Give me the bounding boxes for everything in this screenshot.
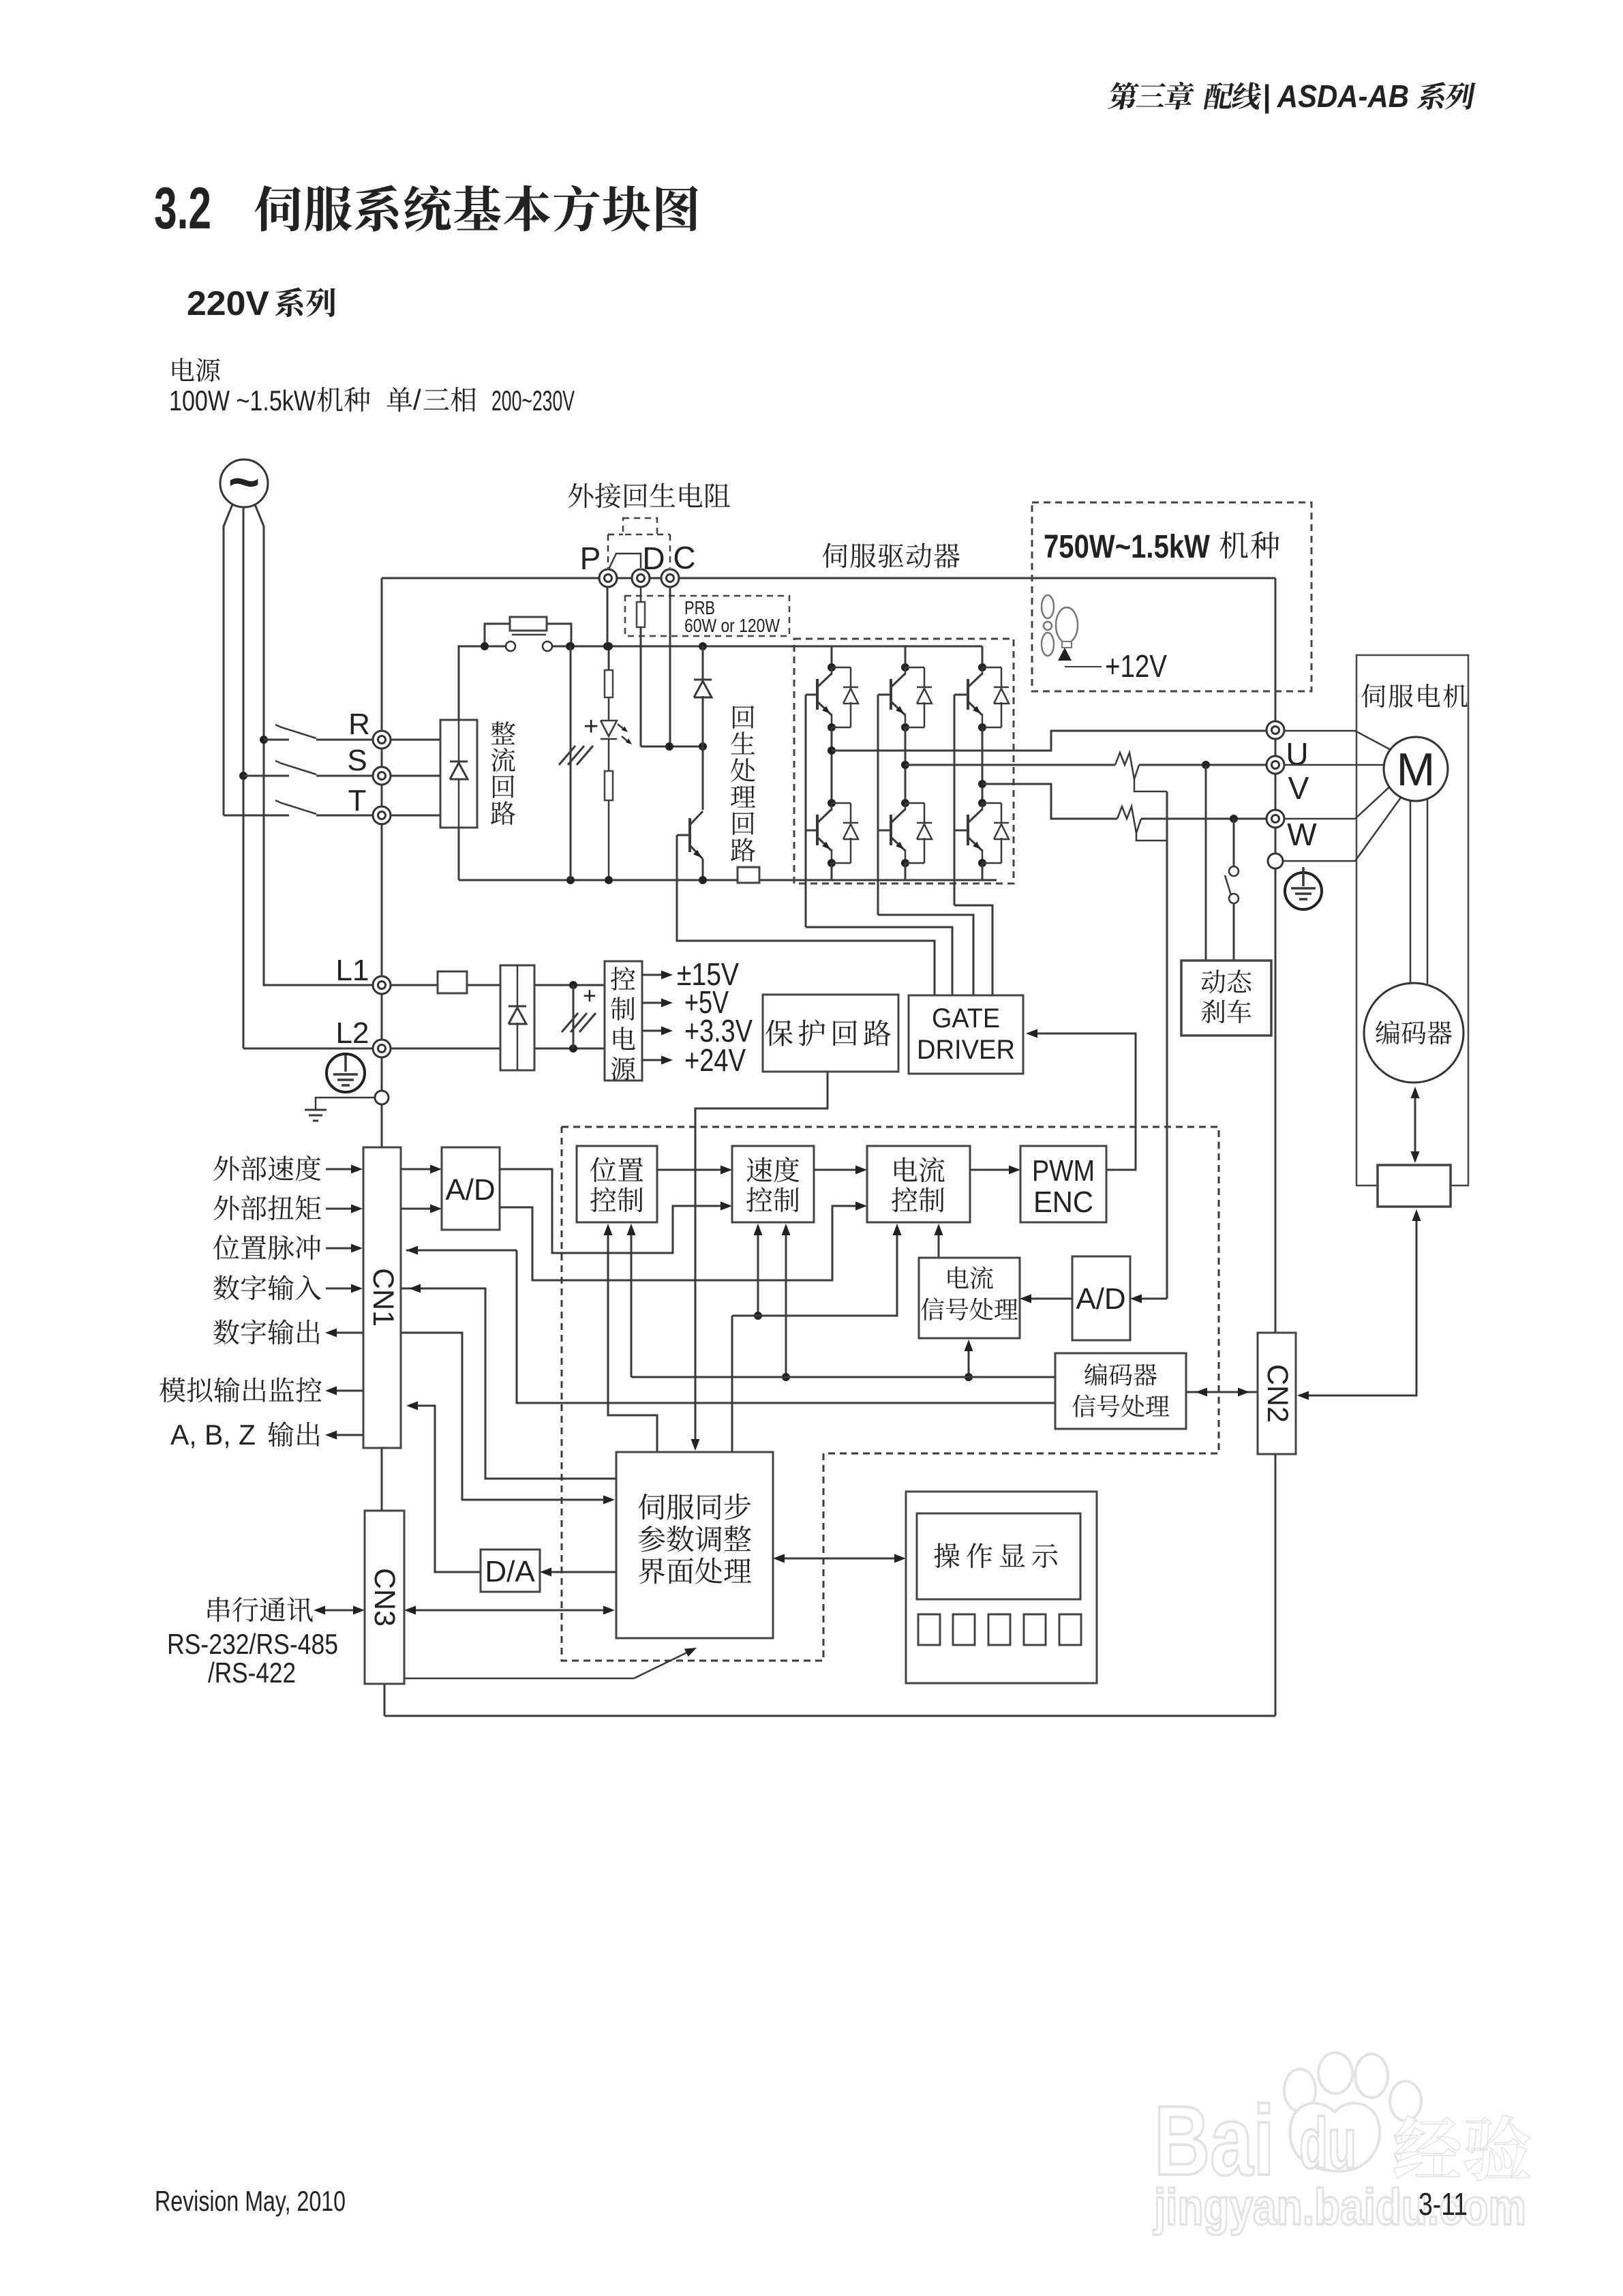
label 外部速度 (214, 1156, 239, 1181)
wire CN1 to A/D speed (401, 1168, 432, 1170)
svg-text:M: M (1397, 744, 1436, 796)
svg-text:L1: L1 (336, 954, 369, 987)
svg-text:+: + (583, 712, 598, 741)
terminal R (373, 731, 391, 749)
IGBT W lower freewheel diode (982, 802, 1001, 804)
wire V gate to gate driver (878, 915, 973, 995)
wire D C join to regen (641, 746, 703, 748)
control supply capacitor (573, 985, 575, 1048)
external regen resistor dashed box (623, 518, 657, 534)
wire L2 to control rectifier (391, 1048, 500, 1050)
wire feedback bus to encoder processing (631, 1376, 1055, 1378)
wire regen gate to gate driver (677, 835, 935, 995)
wire encoder feedback riser to position control (631, 1232, 633, 1377)
operator display screen 操作显示 (917, 1513, 1080, 1599)
wire brake tap V (1205, 765, 1207, 961)
switch R phase (260, 736, 268, 744)
IGBT W lower transistor (978, 799, 986, 807)
CN1 connector box (363, 1147, 401, 1448)
svg-text:60W or 120W: 60W or 120W (684, 615, 780, 636)
ground circle at L2 (327, 1054, 365, 1092)
wire S to rectifier (391, 775, 440, 777)
svg-text:/RS-422: /RS-422 (208, 1657, 296, 1689)
D/A box (481, 1550, 540, 1592)
LED indicator (608, 697, 610, 721)
bleeder resistor upper (605, 642, 613, 650)
wire C column down (669, 587, 671, 746)
svg-text:D: D (642, 541, 665, 576)
label 数字输出 (213, 1320, 239, 1345)
IGBT V lower freewheel diode (905, 802, 924, 804)
shunt resistor box on negative rail (738, 867, 759, 883)
wire U phase to terminal (832, 731, 1266, 751)
wire current control to PWM (970, 1169, 1012, 1171)
fan icon (1042, 595, 1054, 618)
protection box 保护回路 (763, 995, 898, 1072)
DC bus negative rail (459, 879, 738, 881)
svg-text:| ASDA-AB: | ASDA-AB (1262, 78, 1409, 114)
DC bus positive rail (552, 646, 982, 648)
label 外部扭矩 (214, 1196, 239, 1221)
label 模拟输出监控 (160, 1378, 185, 1403)
wire current sense to A/D (1166, 791, 1168, 1299)
terminal motor ground (1268, 854, 1283, 868)
wire AC source to S switch and L2 (243, 507, 245, 1048)
terminal D (632, 569, 650, 587)
PRB dashed box (625, 596, 789, 636)
wire pulse bus CN1 to encoder processing (406, 1250, 517, 1252)
terminal L2 (373, 1040, 391, 1057)
svg-text:A/D: A/D (1076, 1282, 1125, 1316)
DC bus capacitor (566, 642, 575, 650)
svg-text:S: S (347, 744, 367, 777)
750W~1.5kW dashed box (1032, 502, 1311, 691)
wire V phase node (905, 727, 907, 803)
wire V leg to negative rail (905, 863, 907, 880)
svg-text:U: U (1286, 736, 1308, 772)
rectifier box 整流回路 (440, 720, 477, 828)
wire encoder processing to CN2 double arrow (1186, 1391, 1258, 1393)
power outputs (642, 974, 663, 976)
svg-text:CN1: CN1 (367, 1268, 399, 1327)
position control box 位置控制 (577, 1146, 657, 1222)
encoder circle 编码器 (1364, 983, 1463, 1083)
wire control rectifier outputs (534, 984, 605, 986)
gate driver box (909, 995, 1023, 1074)
terminal U (1266, 721, 1284, 739)
speed control box 速度控制 (732, 1146, 814, 1222)
wire CN3 to interface double arrow (412, 1610, 607, 1612)
wire encoder to CN2 (1305, 1218, 1416, 1395)
operator display outer box (906, 1492, 1097, 1683)
PE ground symbol at motor (1285, 873, 1322, 909)
servo motor box 伺服电机 (1356, 655, 1468, 1185)
svg-text:~: ~ (228, 451, 260, 512)
servo drive boundary rail top (382, 577, 1275, 579)
wire W gate column (954, 695, 956, 905)
IGBT bridge dashed box (794, 639, 1014, 883)
current signal processing box 电流信号处理 (919, 1258, 1020, 1338)
svg-text:R: R (348, 708, 370, 741)
wire speed feedback risers (757, 1232, 759, 1316)
svg-text:Revision May, 2010: Revision May, 2010 (155, 2185, 346, 2217)
operator display buttons (918, 1614, 940, 1645)
IGBT V upper freewheel diode (905, 667, 924, 669)
label 外接回生电阻 (568, 483, 594, 509)
control power box 控制电源 (605, 961, 642, 1081)
svg-text:+: + (583, 983, 596, 1009)
label 数字输入 (213, 1275, 239, 1301)
wire U phase node (831, 727, 833, 803)
label 串行通讯 (208, 1597, 230, 1622)
svg-text:750W~1.5kW: 750W~1.5kW (1044, 529, 1211, 565)
terminal P (599, 569, 617, 587)
wire AC source to R switch and L1 (255, 504, 373, 985)
wire ground terminal to earth (316, 1098, 375, 1110)
svg-text:CN2: CN2 (1261, 1364, 1294, 1423)
wire V gate column (877, 695, 879, 915)
wire speed to current control (814, 1169, 858, 1171)
page header 第三章 配线 | ASDA-AB 系列 (1108, 82, 1140, 110)
wire CN3 serial diagonal to interface (404, 1678, 634, 1680)
wire W phase to terminal with current sensor (982, 784, 1117, 819)
IGBT V upper transistor (905, 646, 907, 667)
wire W current sense tap (1136, 833, 1167, 841)
serial double arrow to CN3 (322, 1610, 357, 1612)
svg-text:C: C (673, 540, 695, 575)
wire interface to position control riser (608, 1232, 657, 1452)
wire AC source to T switch (224, 504, 232, 815)
regen diode (699, 642, 707, 650)
baidu watermark (1154, 2053, 1421, 2196)
PRB resistor (637, 602, 645, 627)
IGBT U upper freewheel diode (832, 667, 851, 669)
servo drive boundary rail right (1275, 578, 1277, 1333)
A/D box (442, 1147, 500, 1230)
IGBT U lower transistor (828, 799, 836, 807)
CN2 connector box (1258, 1333, 1296, 1454)
wire protection to DSP (695, 1072, 828, 1443)
motor shaft to encoder (1410, 800, 1412, 984)
IGBT W upper transistor (982, 646, 984, 667)
svg-text:ENC: ENC (1033, 1185, 1093, 1219)
svg-text:3.2: 3.2 (154, 176, 211, 241)
label 伺服驱动器 (822, 543, 847, 568)
interface box 伺服同步参数调整界面处理 (616, 1452, 773, 1638)
wire L1 to fuse (391, 984, 438, 986)
soft start bypass resistor (485, 624, 510, 646)
wire fan +12V (1065, 666, 1102, 667)
IGBT U upper transistor (831, 646, 833, 667)
terminal V (1266, 756, 1284, 774)
svg-text:3-11: 3-11 (1419, 2186, 1468, 2222)
wire V current sense tap (1134, 779, 1167, 791)
switch S phase (239, 772, 247, 780)
wire DSP riser to interface box (731, 1316, 733, 1452)
wire fuse to control rectifier (467, 984, 500, 986)
PWM ENC box (1020, 1146, 1106, 1222)
rectifier diode (458, 720, 460, 761)
encoder signal processing box 编码器信号处理 (1055, 1353, 1186, 1429)
label 位置脉冲 (213, 1235, 239, 1260)
wire digital output to interface (401, 1333, 607, 1500)
jumper P to D (607, 554, 641, 573)
wire A/D2 to current signal processing (1029, 1298, 1072, 1300)
wire U leg to negative rail (831, 863, 833, 880)
svg-text:100W ~1.5kW: 100W ~1.5kW (169, 384, 316, 417)
svg-text:CN3: CN3 (368, 1568, 401, 1627)
terminal ground small circle (375, 1091, 389, 1104)
wire A/D to speed control (500, 1169, 723, 1253)
svg-text:PWM: PWM (1032, 1154, 1095, 1188)
wire CN1 to A/D torque (401, 1208, 432, 1210)
dynamic brake box 动态刹车 (1181, 961, 1271, 1036)
svg-text:+24V: +24V (684, 1042, 746, 1078)
label 回生处理回路 (733, 706, 754, 729)
wire interface to operator display double arrow (781, 1558, 898, 1560)
svg-text:RS-232/RS-485: RS-232/RS-485 (167, 1628, 338, 1660)
svg-text:A, B, Z: A, B, Z (170, 1419, 256, 1451)
svg-text:/: / (413, 384, 421, 416)
AC source circle (220, 459, 268, 507)
terminal L1 (373, 976, 391, 994)
wire brake tap W with switch (1233, 819, 1235, 866)
wire PWM to gate driver (1035, 1033, 1136, 1170)
IGBT U lower freewheel diode (832, 802, 851, 804)
terminal S (373, 767, 391, 785)
label 整流回路 (491, 721, 515, 744)
encoder double arrow (1414, 1091, 1416, 1160)
servo drive boundary rail bottom (384, 1684, 386, 1716)
current control box 电流控制 (867, 1146, 970, 1222)
svg-text:L2: L2 (336, 1016, 369, 1050)
wire D column through PRB (640, 587, 642, 602)
svg-text:W: W (1287, 817, 1317, 852)
regen IGBT Q1 (702, 746, 704, 810)
DSP dashed region (562, 1127, 1219, 1661)
wire R to rectifier (391, 739, 440, 741)
svg-text:jingyan.baidu.com: jingyan.baidu.com (1153, 2179, 1526, 2235)
wire V to motor (1284, 764, 1384, 766)
terminal C (661, 569, 679, 587)
switch T phase (224, 815, 289, 817)
soft start relay contact (506, 641, 515, 651)
encoder connector box (1378, 1165, 1451, 1207)
servo drive boundary rail left (381, 578, 383, 1147)
svg-text:A/D: A/D (445, 1173, 495, 1207)
IGBT V lower transistor (901, 799, 909, 807)
IGBT W upper freewheel diode (982, 667, 1001, 669)
svg-text:T: T (348, 784, 367, 817)
wire current feedback risers (732, 1232, 897, 1316)
svg-text:200~230V: 200~230V (491, 384, 575, 417)
wire ground to motor (1283, 798, 1401, 861)
wire V phase to terminal with current sensor (905, 764, 1115, 766)
wire U gate column (805, 695, 807, 927)
wire W to motor (1284, 785, 1392, 819)
control rectifier box (500, 965, 534, 1070)
terminal W (1266, 810, 1284, 828)
terminal T (373, 806, 391, 824)
wire W gate to gate driver (954, 905, 992, 995)
fuse box (438, 971, 467, 993)
CN3 connector box (365, 1511, 404, 1684)
motor M circle (1384, 737, 1448, 801)
A/D2 box (1072, 1256, 1130, 1340)
svg-text:P: P (580, 541, 601, 576)
wire U to motor (1284, 731, 1395, 752)
svg-text:du: du (1299, 2104, 1356, 2184)
svg-text:DRIVER: DRIVER (917, 1035, 1015, 1065)
wire T to rectifier (391, 815, 440, 817)
svg-text:220V: 220V (187, 284, 270, 322)
wire P column to DC bus (607, 587, 609, 646)
wire W leg to negative rail (982, 863, 984, 880)
svg-text:D/A: D/A (485, 1555, 535, 1588)
wire rectifier top to DC bus (459, 646, 506, 720)
wire rectifier bottom to DC negative rail (458, 828, 460, 880)
svg-text:V: V (1288, 770, 1309, 806)
svg-text:GATE: GATE (932, 1003, 1000, 1033)
wire interface to D/A (549, 1571, 616, 1573)
wire W phase node (982, 727, 984, 803)
wire A/D to current control (500, 1206, 858, 1280)
wire D/A to CN1 monitor output (416, 1406, 481, 1572)
wire digital input to interface (401, 1288, 616, 1479)
wire current feedback bus to current signal processing (968, 1348, 970, 1377)
wire U gate to gate driver (806, 927, 952, 995)
label 电源 (172, 358, 194, 381)
wire position to speed control (657, 1169, 723, 1171)
svg-text:+12V: +12V (1105, 648, 1167, 684)
bleeder resistor lower (608, 739, 610, 771)
